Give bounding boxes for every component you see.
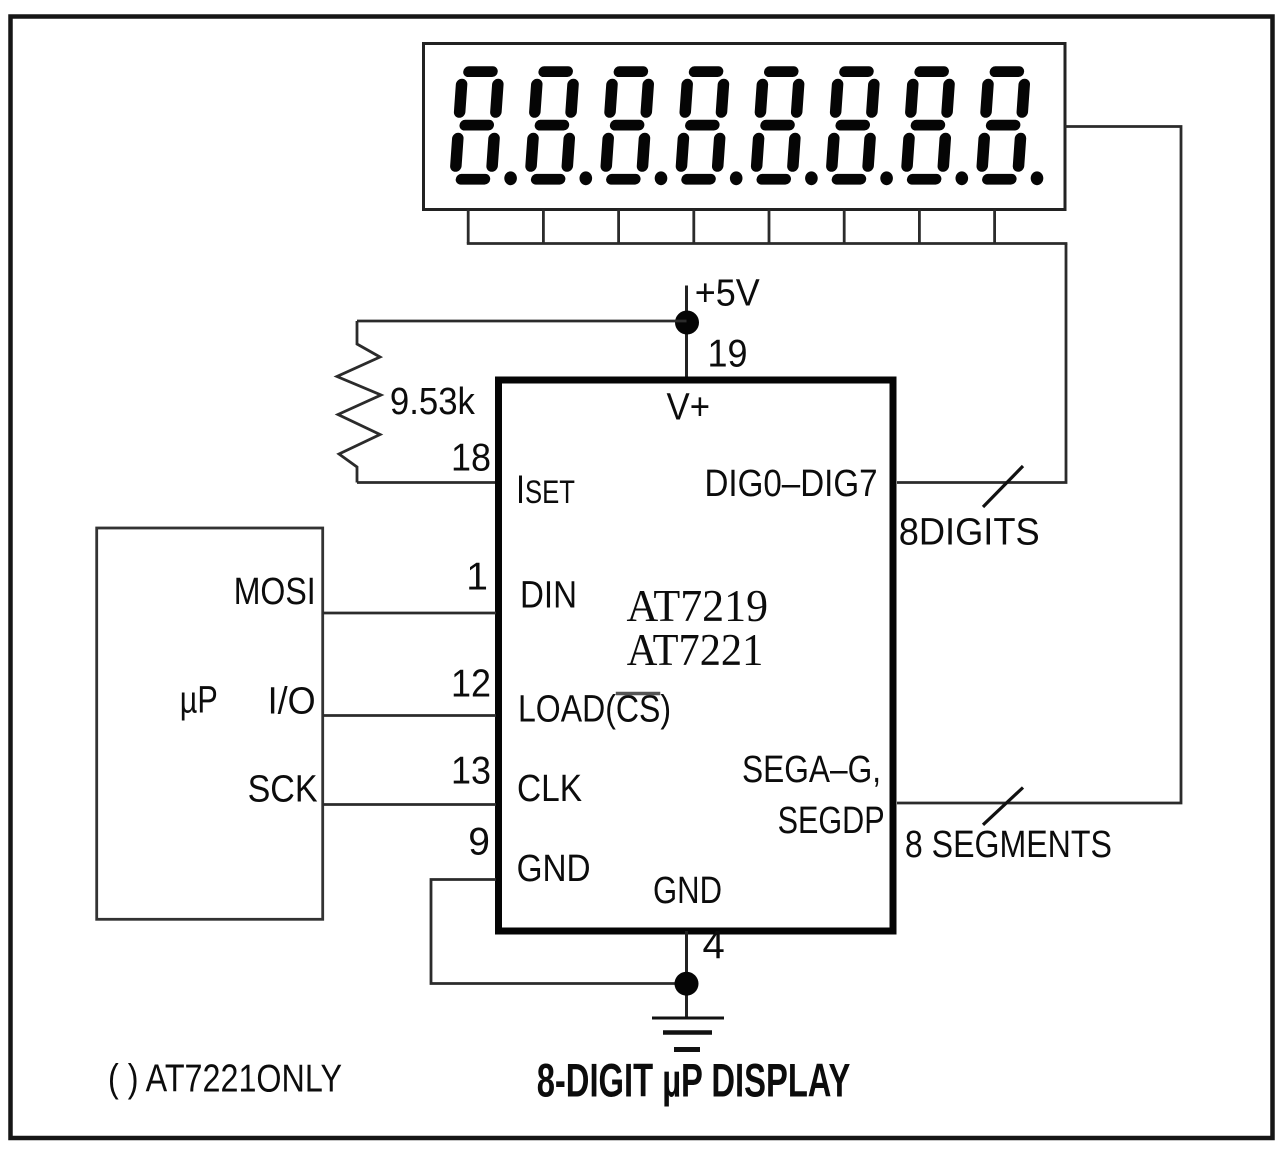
node +5V supply stub [685, 286, 688, 381]
svg-text:AT7219: AT7219 [627, 581, 769, 631]
svg-text:8DIGITS: 8DIGITS [899, 511, 1040, 553]
wire: MOSI to DIN [323, 612, 496, 615]
IC U1 AT7219/AT7221 box [499, 380, 894, 931]
display connector comb [467, 210, 1068, 244]
svg-text:+5V: +5V [695, 273, 761, 315]
wire: SCK to CLK [323, 803, 496, 806]
display digit 6 [825, 66, 893, 185]
wire: segments bus from display to SEG pins [897, 127, 1181, 804]
wire: GND pin 4 down [685, 931, 688, 1018]
svg-text:SEGDP: SEGDP [778, 800, 885, 842]
svg-text:V+: V+ [667, 386, 711, 428]
svg-text:ISET: ISET [516, 468, 575, 512]
svg-text:SEGA–G,: SEGA–G, [742, 749, 881, 791]
resistor R 9.53k [337, 321, 381, 483]
display digit 1 [449, 66, 517, 185]
svg-text:13: 13 [451, 750, 491, 793]
svg-text:GND: GND [517, 848, 591, 890]
svg-text:( ) AT7221ONLY: ( ) AT7221ONLY [108, 1058, 342, 1101]
display digit 8 [975, 66, 1043, 185]
svg-text:µP: µP [180, 680, 218, 722]
svg-text:CLK: CLK [517, 768, 582, 810]
bus slash 8DIGITS [983, 466, 1023, 507]
wire: I/O to LOAD [323, 714, 496, 717]
display digit 3 [599, 66, 667, 185]
wire: digits bus from comb down to DIG0-DIG7 pin [897, 244, 1066, 483]
svg-text:DIN: DIN [520, 575, 577, 617]
svg-text:MOSI: MOSI [234, 571, 316, 613]
svg-text:AT7221: AT7221 [627, 625, 764, 675]
svg-text:18: 18 [451, 436, 491, 479]
wire: +5V to resistor [357, 320, 687, 323]
svg-text:I/O: I/O [268, 681, 316, 723]
junction dot +5V [675, 311, 699, 335]
microprocessor box [97, 528, 323, 919]
junction dot ground [675, 972, 699, 996]
svg-text:9.53k: 9.53k [390, 381, 476, 423]
svg-text:19: 19 [708, 333, 748, 376]
wire: GND pin 9 return to ground node [431, 880, 676, 984]
display digit 2 [524, 66, 592, 185]
svg-text:12: 12 [451, 662, 491, 705]
svg-text:DIG0–DIG7: DIG0–DIG7 [705, 463, 878, 505]
overline on CS [616, 692, 661, 695]
svg-text:GND: GND [653, 870, 722, 912]
svg-text:1: 1 [466, 556, 488, 599]
display digit 4 [674, 66, 742, 185]
display digit 7 [900, 66, 968, 185]
ground symbol [652, 1018, 724, 1050]
svg-text:9: 9 [468, 821, 490, 864]
svg-text:SCK: SCK [248, 769, 318, 811]
svg-text:8-DIGIT µP DISPLAY: 8-DIGIT µP DISPLAY [537, 1053, 851, 1106]
svg-text:8 SEGMENTS: 8 SEGMENTS [905, 824, 1112, 866]
bus slash 8 SEGMENTS [983, 788, 1023, 825]
LED display module box [424, 44, 1066, 210]
wire: resistor to ISET pin 18 [357, 481, 496, 484]
svg-text:4: 4 [703, 923, 725, 967]
display digit 5 [750, 66, 818, 185]
